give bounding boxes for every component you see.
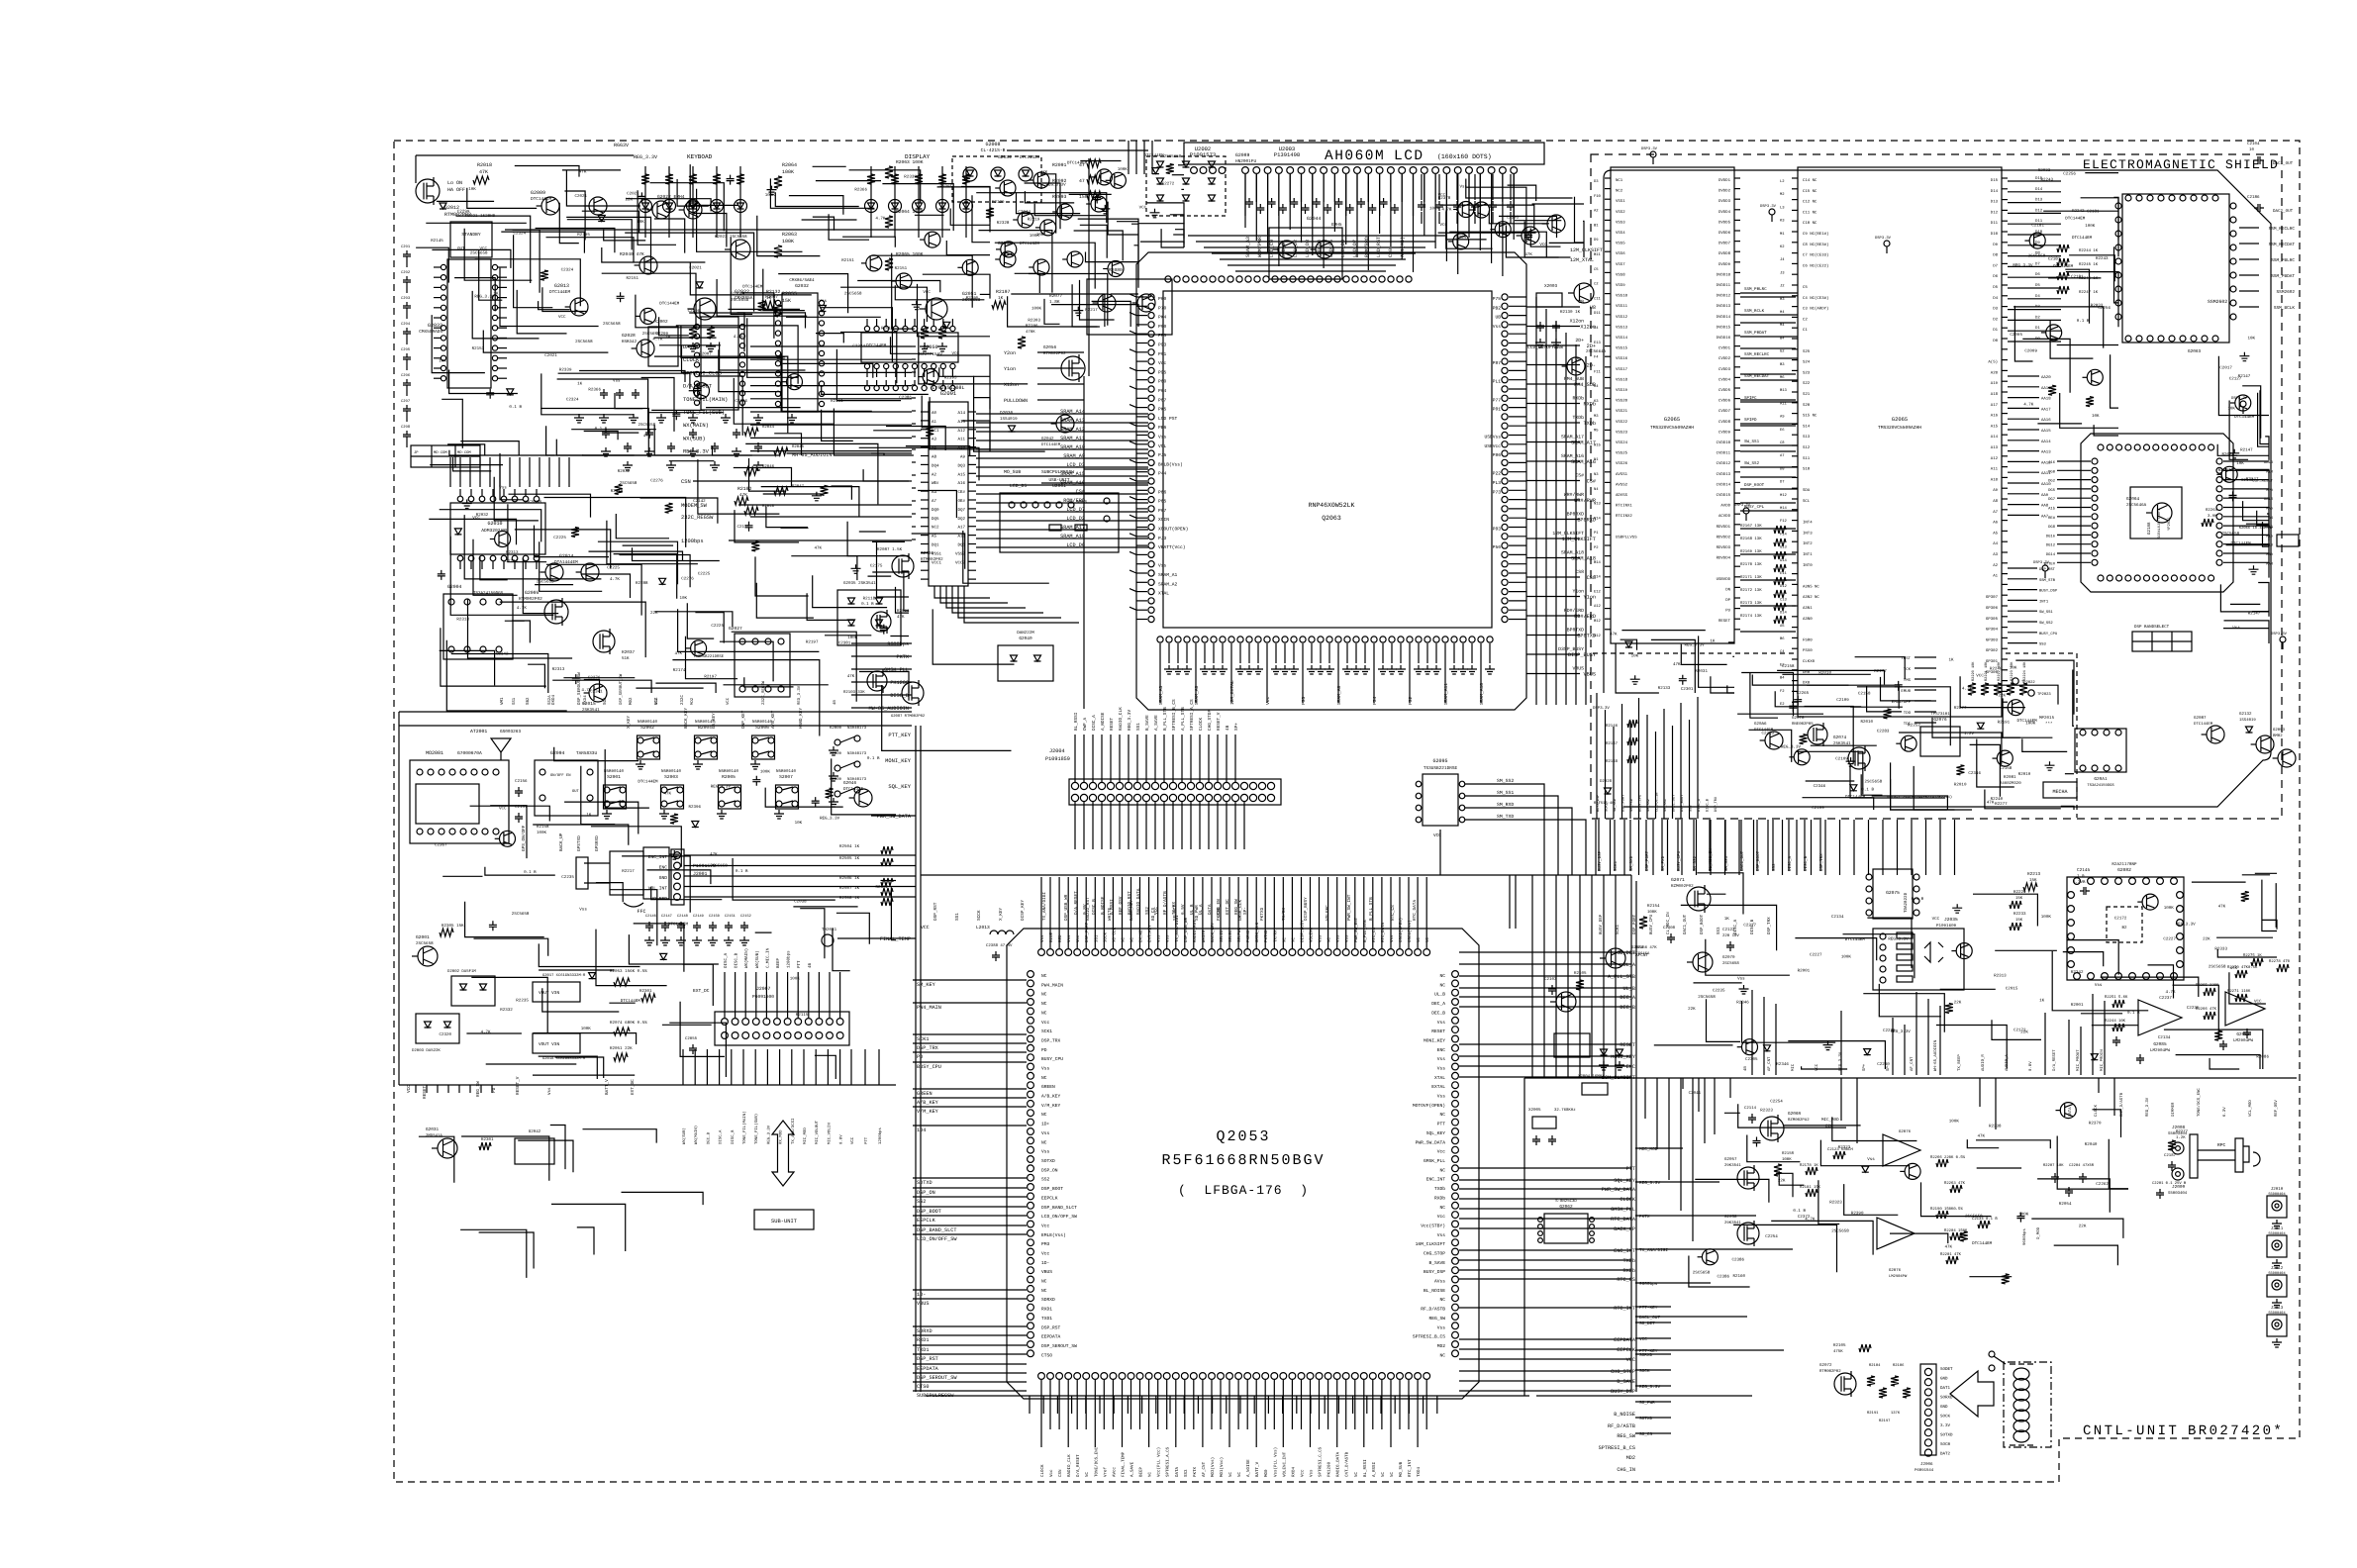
svg-text:R2168 13K: R2168 13K <box>1740 537 1762 541</box>
svg-text:C2381: C2381 <box>838 641 851 646</box>
svg-text:Vss: Vss <box>820 299 828 304</box>
svg-text:A9: A9 <box>1780 415 1785 420</box>
svg-text:PE6: PE6 <box>1158 425 1167 431</box>
svg-text:B_PLL_STB: B_PLL_STB <box>1363 920 1368 942</box>
svg-text:WX(SUB): WX(SUB) <box>682 1127 687 1144</box>
svg-text:NC: NC <box>1041 1279 1047 1285</box>
svg-text:R2217: R2217 <box>1085 308 1098 313</box>
svg-text:D10: D10 <box>1991 232 1999 237</box>
svg-text:VSS22: VSS22 <box>1616 420 1628 425</box>
svg-text:DISC_A: DISC_A <box>1092 715 1097 731</box>
svg-text:N5B90140: N5B90140 <box>776 769 797 774</box>
USB unit connector U2001 <box>1000 493 1119 552</box>
svg-text:M1: M1 <box>1780 232 1785 237</box>
svg-text:DSP3.3V: DSP3.3V <box>1875 236 1892 241</box>
svg-text:R2081: R2081 <box>2004 775 2016 780</box>
svg-text:GP302: GP302 <box>1986 648 1999 653</box>
IC G2065 DSP TMS320VC5509AZHH right <box>1798 167 2002 717</box>
svg-text:1.2K: 1.2K <box>2176 1135 2186 1140</box>
wire mesh texture <box>2255 872 2277 874</box>
svg-text:DISP_BUSY: DISP_BUSY <box>1304 897 1309 921</box>
svg-text:D14: D14 <box>1991 189 1999 194</box>
TP2022 test points <box>2013 678 2018 684</box>
svg-text:2SC5658: 2SC5658 <box>470 251 488 256</box>
svg-text:C293: C293 <box>401 296 411 301</box>
svg-text:SM_FXD: SM_FXD <box>1629 799 1634 812</box>
svg-text:C10 NC: C10 NC <box>1803 221 1817 226</box>
svg-text:RADIO_RST: RADIO_RST <box>1193 920 1198 942</box>
svg-text:R2243: R2243 <box>2041 178 2054 183</box>
svg-text:10: 10 <box>2249 147 2255 152</box>
FET G2071 RZM002P02 <box>1687 887 1711 911</box>
svg-text:TS3USB221DRSE: TS3USB221DRSE <box>693 654 725 659</box>
svg-text:G2082: G2082 <box>2117 867 2131 873</box>
svg-text:Vss: Vss <box>1737 977 1745 982</box>
transistor array G2044 EMH5 <box>1269 228 1342 279</box>
svg-text:D_MOD: D_MOD <box>2036 1226 2041 1239</box>
svg-text:R2244 1K: R2244 1K <box>2079 248 2099 253</box>
svg-text:C2181: C2181 <box>2048 257 2061 262</box>
svg-text:G2008: G2008 <box>985 142 1000 147</box>
component glyph texture <box>1150 209 1160 218</box>
pin ring Q2053 left column <box>1028 971 1034 978</box>
svg-text:A_NOISE: A_NOISE <box>1101 712 1106 731</box>
svg-text:USBPLLVSS: USBPLLVSS <box>1616 535 1637 539</box>
svg-text:DVDD9: DVDD9 <box>1719 262 1731 267</box>
svg-text:GMSK_CLK: GMSK_CLK <box>1255 922 1260 942</box>
regulator G2018 XC6419 VOUT VIN lower <box>533 1033 580 1053</box>
svg-text:SSM_RECLRC: SSM_RECLRC <box>2269 227 2296 232</box>
IC G2081 TS5A2415ODGS <box>2075 729 2126 772</box>
svg-text:NC: NC <box>1041 1075 1047 1081</box>
svg-text:TRST: TRST <box>1901 656 1911 661</box>
headphone jack J2035 P1091609 <box>1873 929 1964 990</box>
svg-text:0.1 B: 0.1 B <box>509 405 522 410</box>
svg-text:22K: 22K <box>1778 1179 1786 1184</box>
svg-text:R2342: R2342 <box>2071 970 2084 975</box>
svg-text:V/M_KEY: V/M_KEY <box>1041 1103 1061 1109</box>
svg-text:C2237: C2237 <box>2159 996 2172 1001</box>
component glyph texture <box>2087 369 2103 385</box>
IC G2010 ADM3202ARU RS232 <box>450 503 545 554</box>
svg-text:AA9: AA9 <box>2041 493 2049 498</box>
svg-text:SM_KEY: SM_KEY <box>917 982 936 988</box>
big left arrow connector symbol <box>1950 1371 1994 1417</box>
svg-text:S12: S12 <box>1803 445 1811 450</box>
svg-text:SM_FXD: SM_FXD <box>1661 855 1666 871</box>
svg-text:J4: J4 <box>1780 257 1785 262</box>
svg-text:DSP_TRX: DSP_TRX <box>1819 853 1824 871</box>
svg-text:INT1: INT1 <box>2039 599 2049 604</box>
svg-text:CE#: CE# <box>957 490 965 495</box>
svg-text:ACVDD: ACVDD <box>1719 514 1731 519</box>
capacitor cluster C2034 <box>600 389 608 399</box>
op-amp G2076 stage <box>1883 1134 1920 1166</box>
transistor G2031 bottom-left <box>438 1138 457 1158</box>
svg-text:Vss: Vss <box>1390 934 1395 942</box>
svg-text:NC: NC <box>1327 936 1332 942</box>
svg-text:A19: A19 <box>1991 381 1999 386</box>
svg-text:DSP_BOOT: DSP_BOOT <box>1700 914 1705 934</box>
svg-text:SD_PWR: SD_PWR <box>1195 905 1200 921</box>
svg-text:SP+: SP+ <box>1234 723 1239 731</box>
svg-text:Lo ON: Lo ON <box>447 180 462 186</box>
IC G2052 CMX86xSAE4 codec <box>782 293 818 412</box>
svg-text:22K: 22K <box>1688 1007 1696 1012</box>
svg-text:C2134: C2134 <box>2158 1035 2171 1040</box>
svg-text:M6: M6 <box>1780 375 1785 380</box>
svg-text:R2378: R2378 <box>1438 196 1451 201</box>
svg-text:C2230: C2230 <box>1877 1062 1890 1067</box>
svg-text:P73: P73 <box>1493 489 1502 495</box>
svg-text:NC: NC <box>1291 936 1296 942</box>
svg-text:CHG_IN: CHG_IN <box>1617 1467 1635 1473</box>
microphone jack cluster G2067 RTM002P02 <box>1834 1373 1856 1395</box>
svg-text:G2013: G2013 <box>554 283 569 289</box>
svg-text:J2035: J2035 <box>1944 917 1958 923</box>
svg-text:DACL_OUT: DACL_OUT <box>1672 794 1677 812</box>
svg-text:B3: B3 <box>1780 362 1785 367</box>
svg-text:SQL_KEY: SQL_KEY <box>1426 1130 1446 1136</box>
svg-text:EXTAL: EXTAL <box>1431 1084 1445 1090</box>
IC G2076 TPS73101 <box>1920 727 1960 756</box>
svg-text:2SC5658: 2SC5658 <box>844 292 862 297</box>
wire top feeds <box>1128 141 1129 174</box>
svg-text:G2070: G2070 <box>1722 955 1735 960</box>
svg-text:R2053 156K 0.5%: R2053 156K 0.5% <box>610 969 647 974</box>
svg-text:D3SP_BUSY: D3SP_BUSY <box>1558 646 1584 652</box>
svg-text:C2254: C2254 <box>1770 1099 1783 1104</box>
svg-text:SCL: SCL <box>1803 499 1811 504</box>
svg-text:E13: E13 <box>1594 341 1602 345</box>
svg-text:V/M_KEY: V/M_KEY <box>917 1109 939 1115</box>
svg-text:P70: P70 <box>1158 305 1167 311</box>
svg-text:DTC144EM: DTC144EM <box>1845 795 1866 800</box>
svg-text:SRAM_A18: SRAM_A18 <box>1060 534 1085 539</box>
svg-text:MONI_KEY: MONI_KEY <box>1611 1054 1636 1060</box>
svg-text:S11: S11 <box>1803 456 1811 461</box>
svg-text:DSP BANDSELECT: DSP BANDSELECT <box>2134 625 2170 630</box>
svg-text:D8: D8 <box>1780 466 1785 471</box>
GPIO labels DSP2 bottom right <box>2008 567 2037 569</box>
FET G2073 RNE002P03 <box>1808 725 1827 744</box>
svg-text:22K: 22K <box>2203 936 2210 941</box>
svg-text:R2046: R2046 <box>762 464 775 469</box>
svg-text:HN2001FU: HN2001FU <box>1235 159 1256 164</box>
svg-text:P32: P32 <box>1408 696 1414 705</box>
svg-text:22K: 22K <box>2079 1224 2087 1228</box>
svg-text:R663V: R663V <box>614 143 629 148</box>
svg-text:ENC: ENC <box>1437 1047 1446 1053</box>
svg-text:R2171 13K: R2171 13K <box>1740 575 1762 580</box>
svg-text:DEC_A: DEC_A <box>1620 995 1635 1001</box>
diode G2040 DAN222M <box>998 645 1053 681</box>
svg-text:D2036: D2036 <box>1000 411 1014 416</box>
svg-text:DAC1_OUT: DAC1_OUT <box>2273 161 2294 166</box>
svg-text:RF_D/ASTB: RF_D/ASTB <box>1421 1307 1445 1313</box>
svg-text:R2013: R2013 <box>881 326 894 331</box>
svg-text:MP2015: MP2015 <box>2039 716 2055 721</box>
svg-text:K3: K3 <box>1780 219 1785 224</box>
svg-text:VCL_MOD: VCL_MOD <box>2248 1100 2253 1117</box>
svg-text:R2313: R2313 <box>552 667 565 672</box>
svg-text:R2048: R2048 <box>762 504 775 509</box>
svg-text:BATT_V: BATT_V <box>1255 1461 1260 1477</box>
svg-text:G2132: G2132 <box>2239 712 2252 717</box>
svg-text:VRUS: VRUS <box>1572 666 1584 672</box>
wire vertical x1540 y1089-1410 <box>1523 1078 1525 1396</box>
svg-text:Vss: Vss <box>2095 983 2103 988</box>
svg-text:DISC_A: DISC_A <box>1788 855 1793 871</box>
svg-text:NC2: NC2 <box>1616 189 1623 194</box>
svg-text:UL_B: UL_B <box>1623 986 1635 992</box>
svg-text:C7 NC(CE33): C7 NC(CE33) <box>1803 253 1828 258</box>
svg-text:INT2: INT2 <box>1803 541 1813 546</box>
svg-text:PKRXD: PKRXD <box>1246 930 1251 942</box>
svg-text:P77: P77 <box>1493 397 1502 403</box>
svg-text:AA17: AA17 <box>2041 407 2051 412</box>
svg-text:SDRXD: SDRXD <box>1041 1297 1055 1303</box>
svg-text:S15 NC: S15 NC <box>1803 414 1817 419</box>
svg-text:R2010: R2010 <box>1954 783 1967 788</box>
svg-text:CVDD8: CVDD8 <box>1719 420 1731 425</box>
svg-text:R2313: R2313 <box>1994 973 2007 978</box>
svg-text:PKTX: PKTX <box>897 654 910 660</box>
svg-text:TPS73101: TPS73101 <box>1930 712 1950 717</box>
FET G2036 RTM002P02 <box>892 555 914 577</box>
svg-text:DP: DP <box>1725 598 1730 603</box>
svg-text:AT2001: AT2001 <box>470 729 487 735</box>
wire horizontal bus y733 <box>399 725 912 727</box>
svg-text:DSP_RST: DSP_RST <box>933 902 938 921</box>
svg-text:G2188: G2188 <box>2147 522 2152 535</box>
svg-text:MIC_PROUT: MIC_PROUT <box>2076 1049 2081 1071</box>
FET G2096 47K <box>871 612 891 632</box>
opto G2042 bottom-left <box>515 1138 554 1164</box>
IC G2004 TS3A24159DGS analog switch <box>443 594 513 659</box>
svg-text:DG7: DG7 <box>2048 497 2055 502</box>
svg-text:R2507 1K: R2507 1K <box>839 886 860 891</box>
svg-text:BUSY_DSP: BUSY_DSP <box>1424 1269 1445 1275</box>
svg-text:VSS14: VSS14 <box>1616 336 1628 341</box>
diode array G2089 HN2001FU <box>1146 156 1226 216</box>
svg-text:10K: 10K <box>2248 336 2256 341</box>
svg-text:X2002: X2002 <box>654 320 668 325</box>
svg-text:NC: NC <box>1439 1112 1445 1118</box>
svg-text:N5B90140: N5B90140 <box>604 769 625 774</box>
svg-text:MH-85_AUDIOIN: MH-85_AUDIOIN <box>792 452 832 458</box>
svg-text:R2147: R2147 <box>1606 741 1619 746</box>
svg-text:SSM_RECDAT: SSM_RECDAT <box>2269 243 2296 247</box>
capacitor array below encoder <box>645 922 653 931</box>
transistor array G2102 EMH4 middle <box>1087 279 1172 335</box>
svg-text:R2346: R2346 <box>1736 1001 1749 1006</box>
svg-text:Vss: Vss <box>1336 934 1341 942</box>
svg-text:BUSY_DSP: BUSY_DSP <box>1599 914 1604 934</box>
svg-text:OWF_A: OWF_A <box>1083 717 1088 731</box>
svg-text:C2: C2 <box>1803 317 1808 322</box>
svg-text:CTS0: CTS0 <box>1041 1352 1052 1358</box>
svg-text:DG0: DG0 <box>2048 469 2056 474</box>
svg-text:220 10V: 220 10V <box>1722 933 1739 938</box>
op-amp G2077 stage lower <box>1877 1218 1915 1249</box>
svg-text:1K: 1K <box>1949 658 1955 663</box>
svg-text:D12: D12 <box>2035 208 2043 213</box>
svg-text:DN: DN <box>1725 587 1730 592</box>
crystal X2002 STANDBY <box>648 327 678 366</box>
svg-text:PWR_SW_DATA: PWR_SW_DATA <box>1416 1139 1446 1145</box>
svg-text:F11: F11 <box>1594 369 1602 374</box>
svg-text:232C: 232C <box>680 694 685 705</box>
svg-text:C2225: C2225 <box>553 536 566 540</box>
wire mesh texture <box>1616 643 1659 693</box>
svg-text:G2042: G2042 <box>1041 437 1054 441</box>
svg-text:R2133: R2133 <box>1658 686 1671 691</box>
svg-text:A17: A17 <box>957 526 965 531</box>
svg-text:51K: 51K <box>622 656 630 661</box>
svg-text:SELECT: SELECT <box>1173 905 1178 921</box>
svg-text:LCD_D2: LCD_D2 <box>1066 516 1085 522</box>
svg-text:NC1: NC1 <box>1616 178 1623 183</box>
svg-text:A15: A15 <box>2266 534 2274 539</box>
svg-text:R2277: R2277 <box>1954 706 1967 711</box>
svg-text:LM2904PW: LM2904PW <box>1889 1274 1908 1279</box>
svg-text:C2172: C2172 <box>2013 1029 2026 1033</box>
wire vertical risers right of Q2063 <box>1535 297 1537 705</box>
svg-text:CVDD3: CVDD3 <box>1719 367 1731 372</box>
svg-text:Vcc: Vcc <box>1158 360 1167 366</box>
svg-text:C2021: C2021 <box>689 265 702 270</box>
svg-text:R2077: R2077 <box>1049 294 1063 299</box>
svg-text:P67: P67 <box>1158 508 1167 514</box>
IC G2027 TS3USB charge switch <box>735 634 790 697</box>
pin ring Q2053 right column <box>1452 971 1459 978</box>
svg-text:HA OFF: HA OFF <box>447 187 465 193</box>
svg-text:S14: S14 <box>1803 424 1811 429</box>
svg-text:TX/RX: TX/RX <box>1281 907 1287 921</box>
svg-text:SG2: SG2 <box>603 697 608 705</box>
svg-text:L2013: L2013 <box>976 925 990 931</box>
svg-text:2SC5658: 2SC5658 <box>638 423 656 428</box>
svg-text:0.1 B: 0.1 B <box>1861 787 1874 792</box>
svg-text:PTT: PTT <box>797 960 802 968</box>
svg-text:BACK_KEY: BACK_KEY <box>684 708 689 729</box>
svg-text:LCD_C0: LCD_C0 <box>1269 240 1275 257</box>
svg-text:F12: F12 <box>1780 519 1788 524</box>
svg-text:R2323: R2323 <box>1829 1201 1842 1206</box>
svg-text:Vcc: Vcc <box>1041 1224 1050 1229</box>
svg-text:47K: 47K <box>710 852 718 857</box>
svg-text:DSP3.3V: DSP3.3V <box>1760 204 1777 209</box>
svg-text:DEC_B: DEC_B <box>1620 1005 1635 1011</box>
svg-text:PTT: PTT <box>1626 1166 1635 1172</box>
capacitor LCD bypass <box>1357 198 1365 208</box>
svg-text:TXD4: TXD4 <box>583 695 588 705</box>
svg-text:G206R: G206R <box>1788 1112 1802 1117</box>
svg-text:NC: NC <box>1439 1297 1445 1303</box>
svg-text:47K: 47K <box>675 651 683 656</box>
svg-text:9600bps: 9600bps <box>887 641 909 647</box>
svg-text:TX_ANA/DIGI: TX_ANA/DIGI <box>1639 1247 1668 1253</box>
svg-text:2D-: 2D- <box>1575 357 1584 363</box>
svg-text:REG_3.3V: REG_3.3V <box>766 1125 771 1144</box>
svg-text:DISP_BUSY: DISP_BUSY <box>1301 920 1306 942</box>
diode D2002 DA5F1M <box>451 976 495 1006</box>
svg-text:100K: 100K <box>2085 224 2096 229</box>
svg-text:100K: 100K <box>760 770 771 775</box>
svg-text:S22: S22 <box>1803 381 1811 386</box>
svg-text:VCC2: VCC2 <box>955 560 966 565</box>
svg-text:10K: 10K <box>2092 414 2100 419</box>
svg-text:SSM_BCLK: SSM_BCLK <box>2274 306 2295 311</box>
svg-text:VSS17: VSS17 <box>1616 367 1628 372</box>
svg-text:A10: A10 <box>957 446 965 451</box>
svg-text:DG16: DG16 <box>2046 534 2056 539</box>
svg-text:137K: 137K <box>1891 1411 1901 1416</box>
svg-text:REG_3.3V: REG_3.3V <box>1888 937 1909 942</box>
svg-text:D3: D3 <box>1594 179 1599 184</box>
svg-text:AVcc: AVcc <box>1112 1466 1117 1477</box>
svg-text:R2065 100K: R2065 100K <box>896 251 924 257</box>
svg-text:DVDD12: DVDD12 <box>1717 294 1731 299</box>
svg-text:DQ2: DQ2 <box>957 517 965 522</box>
svg-text:1D-: 1D- <box>1041 1260 1049 1266</box>
svg-text:1D4: 1D4 <box>917 1127 926 1133</box>
svg-text:RADIO_DATA: RADIO_DATA <box>1336 1451 1341 1477</box>
svg-text:A_PLL_STB: A_PLL_STB <box>1181 707 1186 731</box>
svg-text:R2332: R2332 <box>876 885 889 890</box>
svg-text:REG_SW: REG_SW <box>476 1081 481 1097</box>
svg-text:SRAM_A1: SRAM_A1 <box>1158 572 1178 578</box>
svg-text:ENT_D/ASTB: ENT_D/ASTB <box>2119 1092 2124 1117</box>
svg-text:NC: NC <box>1417 936 1422 942</box>
svg-text:R2151: R2151 <box>831 399 843 404</box>
svg-text:REG_3.3V: REG_3.3V <box>2013 263 2033 268</box>
svg-text:0.1 B: 0.1 B <box>867 756 880 761</box>
svg-text:DTC144EM: DTC144EM <box>1144 153 1165 158</box>
svg-text:ENC_INT: ENC_INT <box>648 854 668 860</box>
capacitor LCD bypass <box>1302 204 1310 214</box>
svg-text:P60: P60 <box>1158 296 1167 302</box>
svg-text:CVDD2: CVDD2 <box>1719 356 1731 361</box>
svg-text:A_RSSI: A_RSSI <box>1372 1461 1377 1477</box>
svg-text:VSS9: VSS9 <box>1616 283 1625 288</box>
svg-text:A8: A8 <box>1993 499 1998 504</box>
svg-text:CVDD1: CVDD1 <box>1719 346 1731 351</box>
svg-text:RNP46X0W52LK: RNP46X0W52LK <box>1309 502 1355 509</box>
svg-text:GP304: GP304 <box>1986 628 1999 633</box>
svg-text:4.7K: 4.7K <box>610 577 621 582</box>
svg-text:RXDb: RXDb <box>1623 1268 1635 1274</box>
svg-text:GREEN: GREEN <box>917 1091 933 1097</box>
svg-text:R2158: R2158 <box>537 825 549 830</box>
svg-text:2SC5658: 2SC5658 <box>2222 532 2240 537</box>
svg-text:C2021: C2021 <box>544 353 557 358</box>
svg-text:M3: M3 <box>1594 414 1599 419</box>
resistor array R2220-R2224 10K <box>1968 683 1976 695</box>
svg-text:C2235: C2235 <box>2187 1006 2200 1011</box>
svg-text:C2225: C2225 <box>607 565 620 570</box>
svg-text:VOUT V3N: VOUT V3N <box>539 1042 559 1047</box>
IC MO2001 G7000670A GPS module <box>410 760 509 843</box>
svg-text:D14: D14 <box>2035 187 2043 192</box>
svg-text:A12: A12 <box>1991 456 1999 461</box>
svg-text:RTC_DATA: RTC_DATA <box>1611 1217 1636 1223</box>
svg-text:DTC144EM: DTC144EM <box>2194 722 2213 727</box>
svg-text:REG_3.3V: REG_3.3V <box>1046 183 1067 188</box>
svg-text:SS3: SS3 <box>1689 806 1694 812</box>
svg-text:R2245 1K: R2245 1K <box>2079 262 2099 267</box>
